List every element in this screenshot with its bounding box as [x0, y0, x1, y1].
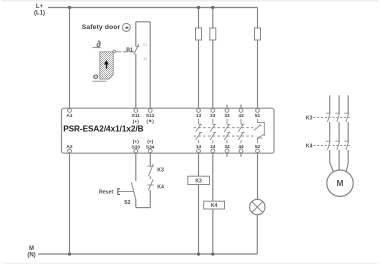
svg-text:33: 33	[224, 113, 230, 119]
motor M1 circle	[327, 170, 353, 196]
svg-text:13: 13	[196, 113, 202, 119]
motor branch phase L1 stub	[329, 95, 331, 113]
contactor K3 pole 3	[344, 113, 348, 122]
svg-text:44: 44	[238, 144, 244, 150]
svg-text:51: 51	[255, 113, 261, 119]
terminal circle A2	[68, 149, 72, 153]
contact K3 feedback NC	[148, 164, 154, 177]
svg-text:52: 52	[255, 144, 261, 150]
terminal labels bottom row	[66, 139, 260, 151]
icon door open	[93, 39, 102, 49]
terminal circle 43	[239, 109, 243, 113]
internal contact 23-24	[210, 119, 216, 144]
terminal circle 23	[211, 109, 215, 113]
junction dot top rail at fuse F1 column	[197, 6, 200, 9]
wire F2 to terminal 23	[212, 40, 214, 108]
B1 loop top bar	[136, 21, 150, 23]
pushbutton S2 actuator bracket	[118, 189, 120, 195]
terminal circle 34	[225, 149, 229, 153]
mechanical linkage K4 dashed	[314, 145, 350, 147]
svg-text:(N): (N)	[27, 253, 35, 259]
contactor K3 pole 1	[326, 113, 330, 122]
fuse F2 column wire top	[212, 8, 214, 29]
wire K4 coil to bottom rail	[212, 209, 214, 254]
svg-text:Θ: Θ	[93, 74, 98, 81]
fuse F3	[255, 28, 261, 40]
contact B1 blade	[134, 44, 139, 54]
relay block PSR-ESA2 outline	[62, 108, 275, 153]
terminal circle 33	[225, 109, 229, 113]
svg-text:K3: K3	[306, 115, 313, 121]
stub terminal 44 below block	[240, 153, 242, 157]
internal contact 51-52 NC	[254, 119, 265, 144]
terminal circle A1	[68, 109, 72, 113]
svg-text:(+): (+)	[133, 119, 139, 125]
terminal circle 24	[211, 149, 215, 153]
svg-text:34: 34	[224, 144, 230, 150]
fuse F1 column wire top	[198, 8, 200, 29]
stub terminal 34 below block	[226, 153, 228, 157]
wire between K4 and K3 contacts	[149, 176, 151, 179]
terminal circle S11	[134, 109, 138, 113]
svg-text:M: M	[337, 178, 344, 188]
pushbutton S2 actuator rod	[118, 191, 134, 193]
wire B1 lower terminal to S11	[135, 54, 137, 109]
svg-text:(L1): (L1)	[34, 11, 45, 17]
svg-text:S12: S12	[146, 113, 155, 119]
svg-text:K4: K4	[211, 203, 218, 209]
svg-text:S34: S34	[146, 145, 155, 151]
svg-text:(: (	[146, 119, 148, 125]
wire S33 column down	[135, 153, 137, 181]
junction dot top rail at fuse F2 column	[211, 6, 214, 9]
mechanical linkage K3 dashed	[314, 116, 350, 118]
terminal circle 14	[197, 149, 201, 153]
mechanical linkage door to B1	[116, 51, 134, 53]
node L+ (L1) label	[34, 4, 45, 17]
svg-text:21: 21	[143, 43, 147, 47]
safety door hatched panel	[100, 52, 113, 79]
svg-text:K4: K4	[306, 144, 313, 150]
svg-text:Reset: Reset	[99, 190, 113, 196]
svg-text:22: 22	[143, 57, 147, 61]
wire A1 column from top rail to relay block	[69, 8, 71, 109]
page border artifact bottom	[2, 262, 378, 264]
motor branch phase L2 stub	[338, 95, 340, 113]
contactor K3 pole 2	[335, 113, 339, 122]
fuse F1	[196, 28, 202, 40]
svg-text:A2: A2	[66, 144, 72, 150]
wire 14 column down	[198, 153, 200, 176]
wire bottom return rail M	[38, 253, 257, 255]
wire S12 column from loop to block	[149, 22, 151, 109]
wire loop right leg up	[149, 190, 151, 207]
svg-text:23: 23	[210, 113, 216, 119]
wire phase 2 into motor	[338, 150, 340, 170]
page border artifact top	[2, 0, 378, 2]
motor branch phase L3 stub	[347, 95, 349, 113]
fuse F2	[210, 28, 216, 40]
svg-text:L+: L+	[36, 4, 44, 10]
svg-text:PSR-ESA2/4x1/1x2/B: PSR-ESA2/4x1/1x2/B	[63, 125, 143, 134]
terminal circle 13	[197, 109, 201, 113]
wire A2 column from relay block to bottom rail	[69, 153, 71, 254]
icon door closed	[92, 74, 106, 81]
symbol actuator circle next to Safety door	[122, 23, 130, 31]
mechanical linkage dashed row 1	[194, 127, 254, 129]
svg-text:S33: S33	[132, 145, 141, 151]
terminal circle 44	[239, 149, 243, 153]
terminal circle S34	[148, 149, 152, 153]
svg-text:K3: K3	[157, 167, 164, 173]
terminal circle S12	[148, 109, 152, 113]
svg-text:S11: S11	[132, 113, 141, 119]
wire K3 coil to bottom rail	[198, 185, 200, 255]
junction dot bottom rail at K4 coil column	[211, 252, 214, 255]
svg-text:14: 14	[196, 144, 202, 150]
stub terminal 43 above block	[240, 105, 242, 109]
svg-text:24: 24	[210, 144, 216, 150]
wire 52 column down to lamp	[257, 153, 259, 200]
contact K4 feedback NC	[148, 179, 154, 190]
wire lamp to bottom rail corner	[256, 215, 258, 254]
wire B1 upper terminal	[135, 22, 137, 47]
wire S2 to loop bottom	[135, 200, 137, 208]
wire phases between K3 and K4	[329, 122, 331, 141]
terminal circle 52	[256, 149, 260, 153]
indicator lamp	[250, 199, 265, 214]
wire F1 to terminal 13	[198, 40, 200, 108]
contact B1 NC bar	[136, 45, 140, 47]
internal contact 13-14	[196, 119, 202, 144]
svg-text:43: 43	[238, 113, 244, 119]
svg-text:A1: A1	[66, 113, 72, 119]
stub terminal 33 above block	[226, 105, 228, 109]
svg-text:(+): (+)	[133, 139, 139, 145]
wire 24 column down	[212, 153, 214, 201]
contactor K4 pole 3	[344, 141, 348, 150]
internal contact 43-44	[238, 119, 244, 144]
contactor K4 pole 2	[335, 141, 339, 150]
wire S34 column down to K3 contact	[149, 153, 151, 166]
svg-text:Safety door: Safety door	[82, 24, 121, 31]
hinge circle on door panel	[113, 50, 116, 53]
junction dot bottom rail at A2 column	[68, 252, 71, 255]
pin label S12 pulse symbol	[146, 119, 154, 125]
terminal circle 51	[256, 109, 260, 113]
wire top supply rail L+	[48, 7, 258, 9]
wire phase 3 into motor	[346, 150, 348, 172]
internal contact 33-34	[224, 119, 230, 144]
fuse F3 column wire from rail corner	[257, 8, 259, 29]
junction dot bottom rail at K3 coil column	[197, 252, 200, 255]
terminal circle S33	[134, 149, 138, 153]
svg-text:(+): (+)	[147, 139, 153, 145]
wire reset loop bottom	[136, 207, 151, 209]
contactor K4 pole 1	[326, 141, 330, 150]
svg-text:K3: K3	[195, 178, 202, 184]
junction dot top rail at A1 column	[68, 6, 71, 9]
svg-text:B1: B1	[126, 47, 133, 53]
wire phase 1 into motor	[330, 150, 334, 173]
wire F3 to terminal 51	[257, 40, 259, 108]
svg-text:M: M	[29, 246, 34, 252]
svg-text:): )	[152, 119, 154, 125]
mechanical linkage dashed row 2	[194, 135, 257, 137]
svg-text:S2: S2	[124, 200, 130, 206]
coil K3 box	[188, 176, 210, 184]
terminal labels top row	[66, 113, 260, 125]
svg-text:K4: K4	[157, 184, 164, 190]
node M (N) label	[27, 246, 35, 258]
pushbutton S2 blade	[131, 182, 135, 199]
coil K4 box	[204, 201, 225, 209]
arrow inside door panel	[104, 60, 109, 69]
